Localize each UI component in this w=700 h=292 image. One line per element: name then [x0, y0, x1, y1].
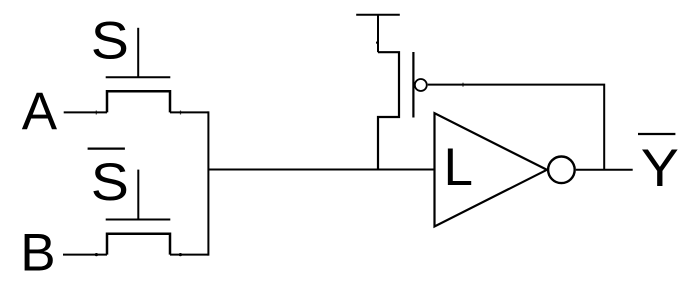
svg-text:S: S: [91, 152, 129, 212]
svg-text:A: A: [22, 82, 58, 141]
svg-text:Y: Y: [641, 138, 679, 198]
svg-text:S: S: [91, 11, 129, 71]
svg-text:L: L: [444, 138, 473, 197]
svg-text:B: B: [20, 224, 55, 283]
